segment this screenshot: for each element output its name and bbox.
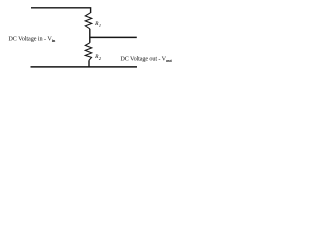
svg-text:R2: R2 [94,54,102,61]
svg-text:DC Voltage in - Vin: DC Voltage in - Vin [8,35,55,42]
svg-text:R1: R1 [94,21,101,28]
wire top (Vin to R1) [31,8,91,13]
wire tap (Vout branch) [90,36,137,38]
resistor R1 [85,13,91,29]
svg-text:DC Voltage out - Vout: DC Voltage out - Vout [120,56,172,63]
wire middle (R1 to R2 through tap node) [89,29,91,43]
wire bottom [31,66,138,68]
resistor R2 [85,43,91,61]
wire R2 to bottom [88,60,90,66]
